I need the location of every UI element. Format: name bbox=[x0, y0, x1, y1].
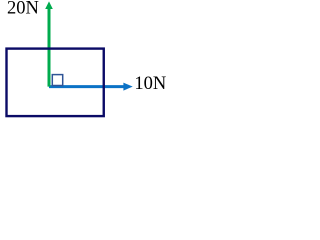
svg-text:10N: 10N bbox=[134, 74, 166, 94]
arrowhead 20N bbox=[45, 1, 53, 9]
wire: blue force line 10N bbox=[49, 85, 125, 88]
arrowhead 10N bbox=[123, 83, 132, 91]
wire: green force line 20N bbox=[48, 9, 51, 87]
svg-text:20N: 20N bbox=[7, 0, 39, 19]
right angle marker bbox=[52, 75, 62, 86]
box (block outline) bbox=[7, 49, 104, 117]
